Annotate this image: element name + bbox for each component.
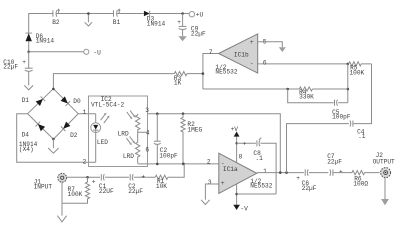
svg-text:+V: +V	[231, 126, 239, 133]
wire bridge right to IC2 pin1	[78, 113, 96, 115]
node junction D3 / C9	[181, 12, 184, 15]
wire IC1a pin8 +V	[231, 126, 240, 163]
wire top rail	[29, 14, 190, 34]
svg-text:10K: 10K	[156, 183, 167, 190]
svg-text:D0: D0	[73, 98, 81, 105]
connector J1 INPUT	[34, 173, 67, 190]
capacitor C10 22uF	[3, 52, 32, 86]
svg-text:NE5532: NE5532	[215, 69, 237, 76]
svg-text:+: +	[296, 175, 300, 182]
resistor R6 100ohm	[333, 171, 379, 188]
svg-text:22µF: 22µF	[327, 158, 342, 165]
svg-text:LED: LED	[97, 139, 108, 146]
svg-text:B1: B1	[113, 19, 121, 26]
svg-text:.1: .1	[255, 155, 263, 162]
node junction top rail / ground	[87, 12, 90, 15]
wire node A vertical	[347, 64, 350, 103]
svg-text:VTL-5C4-2: VTL-5C4-2	[91, 101, 124, 108]
op-amp IC1b	[209, 34, 267, 76]
LDR 1 (inside IC2)	[118, 114, 148, 141]
LDR 2 (inside IC2)	[123, 141, 140, 163]
wire IC1a pin3 to ground	[201, 184, 219, 205]
capacitor C2 100pF	[154, 114, 178, 164]
diode D3 1N914	[144, 11, 166, 28]
capacitor C8 .1	[235, 138, 276, 194]
svg-text:+: +	[250, 39, 254, 46]
svg-text:IC1a: IC1a	[223, 166, 238, 173]
svg-text:+: +	[177, 19, 181, 26]
svg-text:.1: .1	[358, 133, 366, 140]
svg-text:22µF: 22µF	[191, 30, 206, 37]
resistor R4 330K	[299, 87, 314, 101]
svg-text:330K: 330K	[299, 94, 314, 101]
svg-text:LRD: LRD	[118, 131, 129, 138]
svg-text:B2: B2	[52, 19, 60, 26]
wire R4 rail	[203, 88, 348, 91]
wire input chain	[66, 164, 184, 179]
wire bridge left to IC2 pin2	[17, 114, 96, 163]
wire IC1a output rail	[257, 171, 304, 182]
wire IC1b pin5 to ground	[258, 42, 286, 52]
LDR1 light arrows	[127, 111, 136, 120]
resistor R2 1MEG	[181, 114, 203, 164]
ground (C10)	[24, 85, 33, 90]
svg-text:1MEG: 1MEG	[187, 127, 202, 134]
capacitor C7 22uF	[309, 153, 343, 176]
svg-text:LRD: LRD	[123, 153, 134, 160]
svg-text:22µF: 22µF	[3, 64, 18, 71]
svg-text:D1: D1	[22, 97, 30, 104]
terminal +U	[189, 12, 203, 19]
ground (top rail)	[85, 14, 92, 27]
svg-text:2: 2	[207, 158, 211, 165]
LED (inside IC2)	[91, 114, 108, 163]
capacitor C9 22uF	[177, 14, 206, 38]
svg-text:2: 2	[83, 159, 87, 166]
svg-text:OUTPUT: OUTPUT	[373, 159, 395, 166]
resistor R5 100K	[349, 62, 372, 77]
svg-text:4: 4	[146, 129, 150, 136]
svg-text:22µF: 22µF	[128, 188, 143, 195]
LDR2 light arrows	[126, 137, 135, 146]
capacitor C5 100pF	[332, 100, 351, 121]
bridge rectifier frame	[19, 88, 78, 153]
wire IC2 pin3 rail	[148, 112, 281, 172]
resistor R7 100K	[62, 177, 90, 203]
svg-text:8: 8	[239, 153, 243, 160]
svg-text:1N914: 1N914	[147, 20, 166, 27]
svg-text:+U: +U	[196, 12, 204, 19]
svg-text:100K: 100K	[68, 191, 83, 198]
wire R3 rail	[53, 74, 203, 89]
capacitor C1 22UF	[92, 174, 114, 195]
node junction -U tap	[27, 51, 30, 54]
svg-text:6: 6	[263, 60, 267, 67]
svg-text:D4: D4	[22, 132, 30, 139]
svg-text:IC1b: IC1b	[234, 51, 249, 58]
capacitor C2' 22uF	[128, 173, 145, 195]
svg-text:-U: -U	[93, 50, 101, 57]
svg-text:100Ω: 100Ω	[353, 180, 368, 187]
svg-text:100pF: 100pF	[332, 114, 351, 121]
svg-text:7: 7	[209, 49, 213, 56]
diode D1 (bridge)	[36, 96, 46, 106]
svg-text:22µF: 22µF	[302, 185, 317, 192]
svg-text:+: +	[22, 59, 26, 66]
capacitor B1	[113, 9, 121, 26]
resistor R1 10K	[155, 175, 168, 190]
svg-text:100K: 100K	[350, 69, 365, 76]
wire IC1b pin6 rail	[258, 63, 349, 66]
op-amp IC1a	[208, 153, 273, 193]
svg-text:1: 1	[83, 109, 87, 116]
ground (J2)	[381, 178, 389, 206]
connector J2 OUTPUT	[373, 152, 395, 177]
diode D0 (bridge)	[60, 96, 70, 106]
svg-text:NE5532: NE5532	[250, 183, 272, 190]
resistor R3 1K	[174, 72, 187, 87]
svg-text:+: +	[141, 173, 145, 180]
svg-text:100pF: 100pF	[159, 153, 178, 160]
svg-text:+: +	[339, 168, 343, 175]
wire C4 feedback	[287, 124, 349, 173]
ground (bridge bottom)	[48, 139, 58, 153]
capacitor C6 22uF	[302, 169, 317, 192]
svg-text:6: 6	[145, 147, 149, 154]
svg-text:3: 3	[208, 179, 212, 186]
svg-text:1N914: 1N914	[36, 38, 55, 45]
capacitor B2	[52, 9, 60, 26]
svg-text:+: +	[243, 141, 247, 148]
svg-text:1: 1	[263, 168, 267, 175]
svg-text:(X4): (X4)	[19, 146, 34, 153]
svg-text:3: 3	[145, 107, 149, 114]
diode D2 (bridge)	[61, 121, 71, 131]
svg-text:-V: -V	[240, 205, 248, 212]
svg-text:-: -	[250, 60, 254, 67]
svg-text:1K: 1K	[174, 80, 182, 87]
wire C5 branch	[288, 89, 334, 103]
svg-text:+: +	[92, 179, 96, 186]
ground (J1)	[57, 182, 66, 222]
diode D4 (bridge)	[36, 122, 46, 132]
svg-text:INPUT: INPUT	[34, 184, 53, 191]
wire IC1a pin4 -V	[233, 184, 276, 213]
svg-text:+: +	[221, 180, 225, 187]
ground (C9)	[178, 36, 186, 41]
terminal -U	[29, 49, 101, 56]
wire virtual ground node to IC1a pin2	[138, 158, 219, 165]
svg-text:D2: D2	[70, 132, 78, 139]
optocoupler IC2 VTL-5C4-2 box	[83, 96, 150, 167]
capacitor C4 .1	[350, 64, 372, 140]
diode D6 1N914	[26, 33, 55, 52]
svg-text:22UF: 22UF	[99, 188, 114, 195]
wire IC1b output to R3 node	[202, 54, 219, 90]
LED emission arrows	[101, 113, 110, 124]
